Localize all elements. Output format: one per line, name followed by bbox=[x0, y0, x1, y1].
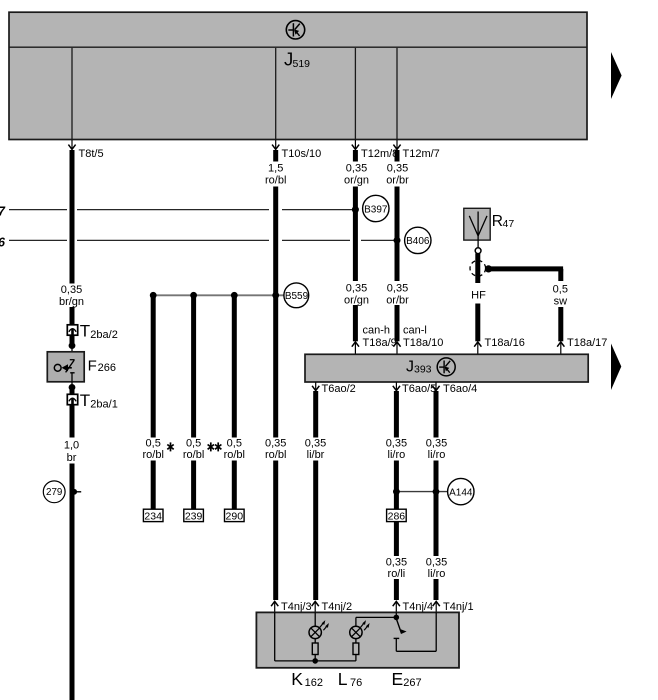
svg-text:ro/bl: ro/bl bbox=[265, 175, 286, 187]
svg-text:T4nj/2: T4nj/2 bbox=[322, 601, 353, 613]
svg-text:290: 290 bbox=[226, 510, 244, 522]
terminal arrow T10s/10 bbox=[272, 140, 321, 160]
svg-text:ro/bl: ro/bl bbox=[224, 449, 245, 461]
node dot below F266 bbox=[69, 384, 76, 391]
svg-text:sw: sw bbox=[554, 296, 568, 308]
svg-text:T10s/10: T10s/10 bbox=[282, 148, 322, 160]
terminal arrow T18a/17 bbox=[557, 337, 607, 354]
svg-text:br: br bbox=[67, 452, 77, 464]
node dot on li/ro right bbox=[433, 488, 440, 495]
terminal arrow T12m/7 bbox=[393, 140, 439, 160]
svg-text:162: 162 bbox=[305, 677, 323, 689]
direction arrow right of J519 bbox=[611, 52, 622, 99]
antenna R47 bbox=[464, 208, 515, 248]
node dot switch top bbox=[394, 615, 400, 621]
svg-text:li/br: li/br bbox=[307, 449, 325, 461]
node dot B397 junction bbox=[352, 206, 359, 213]
internal wire from T4nj/4 bbox=[395, 612, 397, 617]
resistor of L76 bbox=[353, 639, 359, 661]
svg-text:519: 519 bbox=[293, 58, 311, 70]
wire label 1,0 br bbox=[64, 440, 79, 465]
junction rail to A144 bbox=[396, 491, 448, 493]
continuation line 7 bbox=[0, 205, 355, 219]
svg-text:T12m/7: T12m/7 bbox=[403, 148, 440, 160]
node dot on main wire bbox=[272, 292, 279, 299]
label E267 bbox=[392, 669, 422, 689]
svg-text:J: J bbox=[406, 358, 414, 375]
svg-text:L: L bbox=[338, 669, 348, 689]
wire label 0,5 sw bbox=[553, 284, 568, 308]
connection B397 bbox=[363, 195, 389, 221]
terminal arrow T8t/5 bbox=[68, 140, 103, 160]
ground point 279 bbox=[43, 481, 81, 503]
wire ro/li below 286 bbox=[394, 522, 399, 600]
terminal arrow T18a/9 bbox=[352, 337, 397, 354]
svg-text:2ba/2: 2ba/2 bbox=[90, 329, 118, 341]
svg-text:239: 239 bbox=[185, 510, 203, 522]
svg-text:can-l: can-l bbox=[403, 325, 427, 337]
footnote star bbox=[167, 442, 173, 451]
svg-text:0,35: 0,35 bbox=[346, 163, 367, 175]
connection B406 bbox=[405, 227, 431, 253]
terminal box 239 bbox=[184, 509, 204, 522]
node dot on li/ro left bbox=[393, 488, 400, 495]
svg-text:76: 76 bbox=[350, 677, 362, 689]
switch E267 bbox=[394, 612, 437, 651]
connector T2ba/1 bbox=[67, 391, 118, 411]
svg-text:0,35: 0,35 bbox=[346, 283, 367, 295]
wire ro/bl main vertical (x=275.7) bbox=[273, 150, 278, 600]
svg-text:T4nj/3: T4nj/3 bbox=[281, 601, 312, 613]
svg-text:2ba/1: 2ba/1 bbox=[90, 399, 118, 411]
svg-text:T18a/17: T18a/17 bbox=[567, 337, 607, 349]
wire or/gn vertical (x=355.4) bbox=[353, 150, 358, 341]
wire label 0,35 or/br upper bbox=[386, 163, 409, 187]
svg-text:ro/bl: ro/bl bbox=[142, 449, 163, 461]
wire label 0,35 ro/li bbox=[386, 557, 407, 581]
node dot 2 bbox=[190, 292, 197, 299]
svg-text:T4nj/1: T4nj/1 bbox=[443, 601, 474, 613]
junction rail to B559 bbox=[153, 294, 284, 296]
svg-text:1,0: 1,0 bbox=[64, 440, 79, 452]
svg-text:0,5: 0,5 bbox=[146, 438, 161, 450]
wire label 1,5 ro/bl bbox=[265, 163, 286, 187]
svg-text:0,35: 0,35 bbox=[265, 438, 286, 450]
node dot bottom rail bbox=[312, 658, 318, 664]
svg-text:T18a/10: T18a/10 bbox=[403, 337, 443, 349]
connection A144 bbox=[448, 478, 474, 504]
lamp unit box (K162 L76 E267) bbox=[256, 612, 459, 667]
internal wire from T4nj/2 bbox=[314, 612, 316, 626]
svg-text:T18a/9: T18a/9 bbox=[363, 337, 397, 349]
direction arrow right of J393 bbox=[611, 344, 621, 391]
wire label 0,35 or/gn upper bbox=[344, 163, 369, 187]
J519 internal wire stub pin T10s/10 bbox=[275, 48, 277, 139]
terminal arrow T12m/8 bbox=[352, 140, 398, 160]
svg-text:0,35: 0,35 bbox=[305, 438, 326, 450]
terminal arrow T4nj/3 bbox=[271, 601, 311, 613]
continuation line 6 bbox=[0, 236, 397, 250]
control unit J519 box bbox=[9, 12, 587, 139]
svg-text:0,35: 0,35 bbox=[426, 438, 447, 450]
wire L76 top to switch node bbox=[356, 617, 396, 626]
node dot shield bbox=[485, 265, 492, 272]
wire br/gn vertical (left, x=72) bbox=[70, 150, 75, 325]
svg-text:T6ao/2: T6ao/2 bbox=[322, 383, 356, 395]
svg-text:0,5: 0,5 bbox=[227, 438, 242, 450]
svg-text:ro/bl: ro/bl bbox=[265, 449, 286, 461]
branch wire 2 (x=193.6) bbox=[191, 295, 196, 509]
svg-text:A144: A144 bbox=[449, 487, 473, 498]
svg-text:ro/bl: ro/bl bbox=[183, 449, 204, 461]
J519 internal wire stub pin T12m/7 bbox=[396, 48, 398, 139]
svg-text:F: F bbox=[88, 357, 97, 374]
wire stub to connector bbox=[70, 387, 75, 394]
svg-text:ro/li: ro/li bbox=[388, 568, 406, 580]
svg-text:T6ao/4: T6ao/4 bbox=[443, 383, 477, 395]
svg-text:li/ro: li/ro bbox=[388, 449, 406, 461]
svg-text:T4nj/4: T4nj/4 bbox=[403, 601, 434, 613]
terminal arrow T6ao/5 bbox=[393, 382, 436, 395]
wire li/br vertical (x=315.7) bbox=[313, 391, 318, 600]
svg-text:R: R bbox=[492, 213, 503, 230]
svg-text:HF: HF bbox=[471, 290, 486, 302]
J519 internal wire stub pin T8t/5 bbox=[71, 48, 73, 139]
svg-text:T18a/16: T18a/16 bbox=[485, 337, 525, 349]
terminal arrow T18a/16 bbox=[474, 337, 525, 354]
svg-text:0,35: 0,35 bbox=[387, 283, 408, 295]
branch wire 1 (x=153.2) bbox=[151, 295, 156, 509]
terminal arrow T4nj/4 bbox=[393, 601, 433, 613]
wire label 0,5 ro/bl (2) bbox=[183, 438, 204, 462]
branch wire 3 (x=234.3) bbox=[232, 295, 237, 509]
wire li/ro vertical (x=396.4) bbox=[394, 391, 399, 509]
svg-text:can-h: can-h bbox=[363, 325, 391, 337]
svg-text:266: 266 bbox=[98, 362, 116, 374]
wire label 0,35 li/ro (left) bbox=[386, 438, 407, 462]
svg-text:or/br: or/br bbox=[386, 295, 409, 307]
wire label 0,35 ro/bl bbox=[265, 438, 286, 462]
connection B559 bbox=[284, 283, 309, 308]
svg-text:234: 234 bbox=[144, 510, 162, 522]
node dot B406 junction bbox=[394, 237, 401, 244]
connector T2ba/2 bbox=[67, 321, 118, 341]
shield symbol bbox=[470, 261, 486, 277]
svg-text:E: E bbox=[392, 669, 404, 689]
terminal arrow T4nj/2 bbox=[312, 601, 352, 613]
resistor of K162 bbox=[312, 639, 318, 661]
terminal box 234 bbox=[143, 509, 163, 522]
svg-text:1,5: 1,5 bbox=[268, 163, 283, 175]
svg-text:or/gn: or/gn bbox=[344, 295, 369, 307]
wire li/ro vertical (x=436) bbox=[434, 391, 439, 600]
svg-text:B406: B406 bbox=[406, 236, 430, 247]
node dot above F266 bbox=[69, 342, 76, 349]
wire label 0,35 li/br bbox=[305, 438, 326, 462]
node dot 1 bbox=[150, 292, 157, 299]
terminal arrow T4nj/1 bbox=[433, 601, 474, 613]
wire sw horizontal bbox=[489, 266, 564, 271]
wire 1,0 br lower bbox=[70, 405, 75, 700]
svg-text:0,35: 0,35 bbox=[386, 438, 407, 450]
wire label 0,35 li/ro lower bbox=[426, 557, 447, 581]
svg-text:0,5: 0,5 bbox=[186, 438, 201, 450]
svg-text:393: 393 bbox=[414, 363, 432, 375]
terminal box 290 bbox=[225, 509, 245, 522]
label L76 bbox=[338, 669, 362, 689]
svg-text:286: 286 bbox=[388, 510, 406, 522]
svg-text:K: K bbox=[291, 669, 303, 689]
rail to L76 resistor bbox=[315, 660, 356, 662]
node dot 3 bbox=[231, 292, 238, 299]
internal wire from T4nj/3 bbox=[275, 612, 316, 661]
antenna terminal circle bbox=[475, 248, 481, 254]
thin lead out of F266 bbox=[71, 373, 73, 388]
thin lead into F266 bbox=[71, 346, 73, 360]
svg-text:li/ro: li/ro bbox=[428, 449, 446, 461]
svg-text:279: 279 bbox=[46, 487, 62, 498]
svg-text:T: T bbox=[80, 391, 90, 410]
wire stub to node bbox=[70, 335, 75, 343]
wire label 0,35 or/gn lower bbox=[344, 283, 369, 307]
footnote double star bbox=[208, 442, 222, 451]
svg-text:B559: B559 bbox=[285, 291, 309, 302]
svg-text:T12m/8: T12m/8 bbox=[361, 148, 398, 160]
circled K symbol on J393 bbox=[437, 358, 455, 376]
label K162 bbox=[291, 669, 323, 689]
bulb K162 bbox=[309, 620, 329, 639]
svg-text:B397: B397 bbox=[364, 204, 388, 215]
svg-text:li/ro: li/ro bbox=[428, 568, 446, 580]
wire HF vertical bbox=[475, 253, 480, 341]
terminal box 286 bbox=[387, 509, 407, 522]
svg-text:0,35: 0,35 bbox=[61, 284, 82, 296]
wire label 0,5 ro/bl (3) bbox=[224, 438, 245, 462]
svg-text:0,5: 0,5 bbox=[553, 284, 568, 296]
terminal arrow T6ao/4 bbox=[432, 382, 477, 395]
svg-text:0,35: 0,35 bbox=[387, 163, 408, 175]
svg-text:T: T bbox=[80, 321, 90, 340]
J519 internal wire stub pin T12m/8 bbox=[354, 48, 356, 139]
wire sw vertical bbox=[558, 269, 563, 341]
wire label 0,5 ro/bl (1) bbox=[142, 438, 163, 462]
wire label 0,35 li/ro (right) bbox=[426, 438, 447, 462]
svg-text:267: 267 bbox=[403, 677, 421, 689]
bulb L76 bbox=[350, 620, 370, 639]
svg-text:47: 47 bbox=[503, 218, 515, 230]
svg-text:or/gn: or/gn bbox=[344, 175, 369, 187]
terminal arrow T18a/10 bbox=[393, 337, 443, 354]
wire or/br vertical (x=397) bbox=[395, 150, 400, 341]
svg-text:T6ao/5: T6ao/5 bbox=[402, 383, 436, 395]
terminal arrow T6ao/2 bbox=[312, 382, 356, 395]
wire label 0,35 br/gn bbox=[59, 284, 84, 308]
svg-text:or/br: or/br bbox=[386, 175, 409, 187]
control unit J393 box bbox=[305, 354, 588, 382]
fuse F266 box bbox=[47, 352, 116, 382]
svg-text:T8t/5: T8t/5 bbox=[79, 148, 104, 160]
svg-text:0,35: 0,35 bbox=[386, 557, 407, 569]
wire label 0,35 or/br lower bbox=[386, 283, 409, 307]
svg-text:br/gn: br/gn bbox=[59, 296, 84, 308]
svg-text:0,35: 0,35 bbox=[426, 557, 447, 569]
circled K symbol on J519 bbox=[286, 21, 304, 39]
